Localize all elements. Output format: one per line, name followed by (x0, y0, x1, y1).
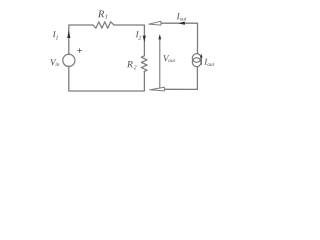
label Vout (163, 55, 175, 62)
wire: right rail bottom and bottom wire to open arrow (165, 67, 198, 90)
arrow Iout beside source (200, 54, 202, 65)
label I1 (53, 31, 58, 39)
current arrow Iout on top wire (178, 22, 185, 25)
+ polarity mark (78, 49, 82, 53)
current source Iout (192, 54, 201, 67)
current arrow I2 (143, 36, 146, 43)
label R1 (98, 11, 107, 19)
wire: left rail and top wire to R1 (69, 25, 93, 54)
label R2 (127, 61, 137, 69)
resistor R1 (93, 22, 114, 28)
wire: top wire from R1 to node and down to R2 (114, 25, 144, 56)
label Iout top (177, 13, 187, 20)
label Iout right (204, 59, 214, 66)
label I2 (136, 31, 142, 39)
current arrow I1 (67, 30, 70, 38)
wire: R2 bottom lead and bottom rail back to Vin (69, 66, 145, 91)
wire: top right from open arrow to right rail (161, 23, 198, 54)
voltage arrow Vout (158, 34, 161, 88)
open arrowhead top port (149, 21, 161, 25)
voltage source Vin (63, 54, 75, 66)
label Vin (50, 59, 59, 66)
resistor R2 (141, 56, 147, 72)
open arrowhead bottom port (150, 87, 165, 91)
